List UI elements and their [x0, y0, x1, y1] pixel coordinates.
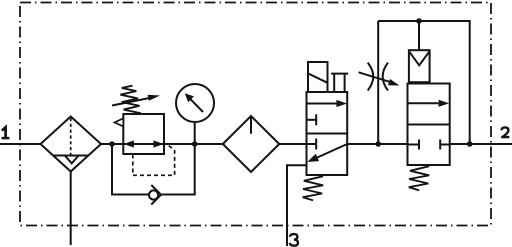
valve V2 return spring [409, 166, 429, 190]
wire lubricator to valve V1 [279, 143, 306, 145]
filter F1 water triangle [65, 156, 79, 164]
valve V1 divider [307, 133, 348, 135]
filter F1 separator chord [54, 155, 89, 157]
pilot wire down [418, 21, 420, 50]
wire drain loop right [161, 144, 195, 195]
lubricator drop line [250, 117, 252, 134]
gauge stem [194, 122, 196, 144]
regulator R1 body [123, 114, 164, 154]
pressure gauge G1 [176, 84, 214, 122]
bypass top wire [378, 21, 470, 144]
valve V2 bottom right blocked port T [440, 144, 450, 146]
port 2 label [501, 127, 509, 137]
valve V1 return spring [303, 176, 323, 200]
regulator right arrowhead [153, 140, 163, 147]
regulator left arrowhead [124, 140, 134, 147]
lubricator L1 diamond [223, 116, 279, 172]
valve V1 exhaust wire to port 3 [287, 165, 307, 246]
regulator adjustment arrow [112, 98, 150, 106]
valve V1 top square blocked port T [307, 119, 317, 121]
node E (bypass return junction) [467, 141, 473, 147]
regulator flow line [123, 143, 164, 145]
filter F1 dashed filter element [70, 118, 72, 155]
valve V1 solenoid [308, 62, 328, 92]
valve V2 bottom left blocked port T [408, 144, 420, 146]
throttle adjustment arrow [359, 72, 391, 82]
node C (bypass branch) [375, 141, 381, 147]
valve V2 pilot chevron [409, 51, 430, 65]
valve V2 top square flow arrow [408, 102, 439, 104]
drain valve circle [149, 190, 158, 199]
valve V1 bottom square diagonal exhaust arrow [315, 144, 347, 159]
regulator pilot dashed line [133, 146, 175, 176]
gauge needle [189, 98, 203, 112]
regulator vent triangle [115, 118, 124, 126]
node B (gauge junction) [192, 141, 198, 147]
wire valve V1 to valve V2 [347, 143, 407, 145]
valve V2 divider [408, 124, 450, 126]
node A (drain branch junction) [109, 141, 115, 147]
node D (pilot branch on top wire) [416, 18, 422, 24]
valve V1 bottom square blocked port T [307, 143, 317, 145]
port 1 label [2, 127, 10, 138]
valve V1 body [307, 92, 348, 175]
valve V1 top square flow arrow [307, 103, 339, 105]
valve V1 manual override [331, 73, 348, 75]
wire filter to regulator [101, 143, 123, 145]
port 3 label [290, 234, 298, 246]
filter F1 drain line [70, 172, 72, 246]
wire drain loop left [112, 144, 149, 195]
throttle valve arcs [368, 63, 374, 91]
filter F1 diamond body [41, 117, 102, 172]
wire valve V2 to port 2 [450, 143, 512, 145]
regulator spring [120, 86, 141, 114]
wire port 1 to filter [0, 143, 41, 145]
wire regulator to lubricator [164, 143, 223, 145]
bypass riser wire [377, 21, 379, 144]
drain valve seat chevron [151, 185, 161, 205]
valve V2 pilot box [409, 50, 430, 82]
valve V2 body [408, 84, 450, 166]
